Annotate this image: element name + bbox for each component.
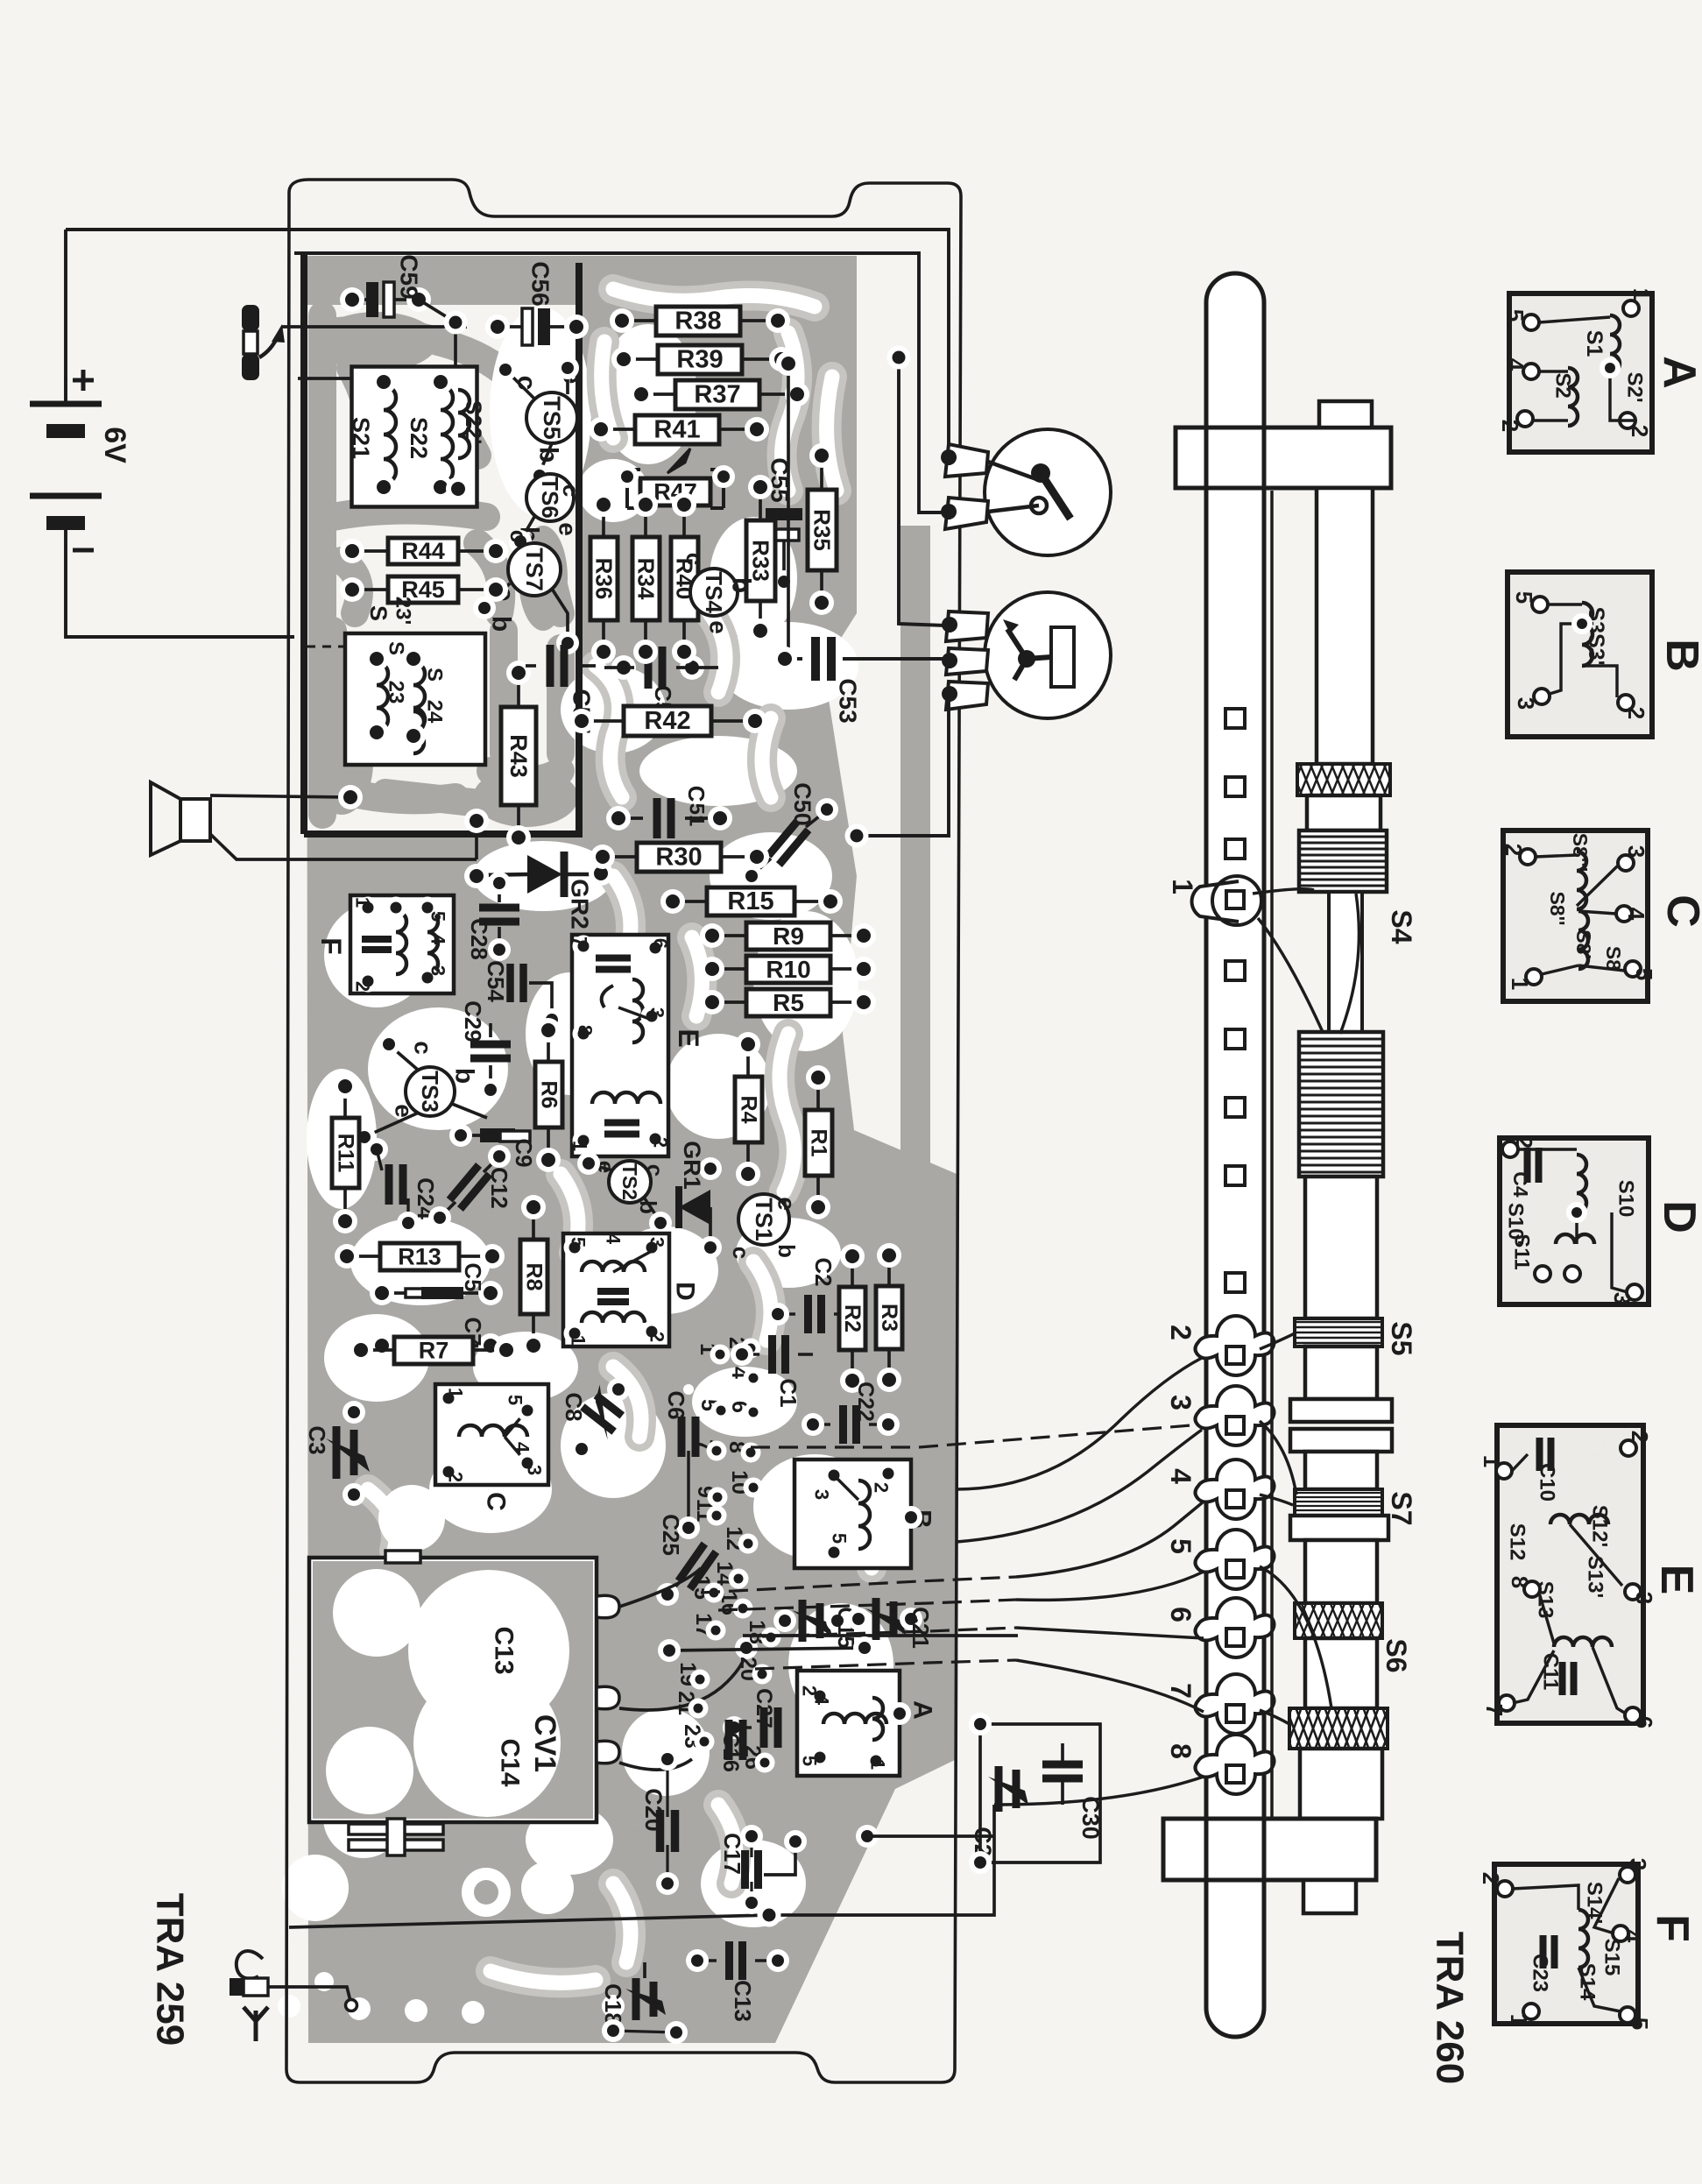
- diode GR1: [679, 1190, 710, 1225]
- svg-text:R34: R34: [633, 558, 660, 600]
- detail box E: [1497, 1425, 1643, 1723]
- svg-text:2: 2: [1623, 707, 1649, 719]
- svg-text:C54: C54: [483, 960, 509, 1002]
- net 23 dashed: [307, 646, 343, 648]
- svg-text:S11: S11: [1510, 1233, 1534, 1269]
- resistor R1: [805, 1110, 832, 1176]
- svg-text:R7: R7: [419, 1338, 449, 1364]
- svg-text:b: b: [450, 1068, 479, 1084]
- resistor R39: [658, 345, 742, 374]
- svg-text:C14: C14: [496, 1738, 525, 1786]
- svg-text:e: e: [554, 522, 582, 536]
- svg-text:c: c: [728, 1247, 754, 1259]
- svg-text:C5: C5: [460, 1262, 486, 1291]
- transistor TS5: [526, 392, 577, 443]
- detail box C: [1503, 830, 1648, 1001]
- resistor R30: [637, 843, 721, 872]
- transistor TS3: [406, 1067, 455, 1116]
- wire lug7 to S6b: [1260, 1710, 1289, 1724]
- resistor R34: [632, 537, 660, 620]
- capacitor C29: [470, 1044, 511, 1058]
- svg-text:TS7: TS7: [521, 548, 547, 591]
- battery plus sign: [73, 370, 94, 391]
- svg-text:7: 7: [1481, 1704, 1508, 1716]
- svg-text:2: 2: [650, 1137, 672, 1148]
- svg-text:C6: C6: [663, 1390, 689, 1419]
- dashed wire net lower 1: [701, 1577, 1016, 1593]
- svg-text:C28: C28: [466, 918, 492, 960]
- svg-text:4: 4: [603, 1233, 625, 1245]
- transistor TS6: [526, 474, 574, 521]
- svg-text:R37: R37: [694, 381, 740, 409]
- svg-text:2: 2: [1478, 1872, 1504, 1884]
- resistor R7: [394, 1337, 473, 1364]
- lamp wires: [988, 462, 1039, 480]
- solid wire net A: [743, 1634, 1018, 1637]
- svg-text:TS1: TS1: [751, 1198, 777, 1241]
- svg-text:D: D: [671, 1282, 700, 1301]
- trimmer C3: [333, 1426, 341, 1479]
- svg-text:R36: R36: [591, 558, 618, 600]
- svg-text:4: 4: [1623, 908, 1649, 921]
- svg-text:1: 1: [1479, 1455, 1505, 1467]
- belt lug 7: [1196, 1674, 1275, 1734]
- trimmer C8: [576, 1385, 631, 1440]
- belt lug 3: [1196, 1386, 1275, 1445]
- resistor R33: [746, 520, 775, 601]
- svg-text:2: 2: [646, 1332, 668, 1342]
- capacitor C27: [764, 1707, 778, 1748]
- svg-text:5: 5: [505, 1395, 526, 1405]
- resistor R45: [388, 576, 458, 603]
- svg-text:4: 4: [512, 1442, 533, 1453]
- rod mounting crossbar: [1176, 428, 1391, 488]
- svg-text:c: c: [505, 530, 532, 542]
- svg-text:C16: C16: [718, 1732, 743, 1772]
- svg-text:24: 24: [423, 700, 447, 724]
- svg-text:3: 3: [1631, 1592, 1657, 1604]
- wire loop C26 C30: [980, 1724, 1100, 1862]
- resistor R8: [520, 1240, 547, 1314]
- resistor R41: [635, 415, 719, 444]
- svg-text:4: 4: [1502, 358, 1529, 371]
- svg-text:R8: R8: [522, 1263, 547, 1291]
- svg-text:C8: C8: [561, 1392, 587, 1421]
- svg-text:C22: C22: [853, 1382, 878, 1422]
- svg-text:R42: R42: [644, 707, 690, 735]
- svg-text:3: 3: [1609, 1292, 1635, 1304]
- rod collar 1: [1307, 795, 1381, 830]
- svg-text:8: 8: [1507, 1576, 1533, 1588]
- rod collar pair: [1290, 1399, 1392, 1422]
- board wire to lug6: [1016, 1628, 1204, 1638]
- belt lug 5: [1196, 1530, 1275, 1589]
- rod tube mid: [1329, 892, 1362, 1032]
- capacitor C1: [773, 1335, 786, 1374]
- svg-text:S12: S12: [1506, 1523, 1529, 1561]
- svg-text:C4: C4: [1509, 1171, 1532, 1198]
- svg-text:R10: R10: [766, 956, 810, 983]
- svg-text:3: 3: [427, 965, 449, 976]
- capacitor C59: [366, 282, 378, 317]
- svg-text:4: 4: [1165, 1468, 1197, 1484]
- svg-text:TRA 259: TRA 259: [149, 1893, 192, 2046]
- svg-text:R4: R4: [737, 1096, 761, 1124]
- svg-text:3: 3: [1513, 697, 1539, 710]
- svg-text:c: c: [558, 484, 584, 497]
- svg-text:R2: R2: [840, 1304, 865, 1332]
- rod bottom bracket: [1163, 1819, 1376, 1880]
- svg-text:C9: C9: [511, 1138, 537, 1167]
- svg-text:5: 5: [1165, 1538, 1197, 1554]
- transistor TS2: [609, 1161, 651, 1203]
- svg-text:R5: R5: [773, 989, 804, 1016]
- svg-text:6: 6: [650, 938, 672, 949]
- coil S5 band: [1295, 1318, 1382, 1346]
- svg-text:C20: C20: [640, 1788, 667, 1832]
- resistor R36: [590, 537, 618, 620]
- svg-text:C: C: [482, 1492, 511, 1511]
- svg-text:S10: S10: [1614, 1180, 1638, 1218]
- svg-text:5: 5: [799, 1756, 821, 1766]
- tuning meter: [985, 592, 1111, 718]
- pour channel halo strokes: [368, 289, 876, 1983]
- trimmer C18: [632, 1978, 640, 2020]
- audio section border: [304, 253, 579, 834]
- rod tube 5: [1305, 1540, 1377, 1603]
- svg-text:6: 6: [1165, 1607, 1197, 1622]
- IF transformer E box: [572, 935, 668, 1156]
- capacitor C54: [511, 964, 524, 1002]
- board wire to lug5: [1016, 1572, 1204, 1600]
- svg-text:R41: R41: [653, 416, 700, 444]
- resistor R37: [675, 380, 759, 409]
- meter wire from pad: [899, 357, 945, 626]
- svg-text:23': 23': [392, 597, 415, 625]
- svg-text:R33: R33: [748, 540, 774, 582]
- CV1 wire to C25: [619, 1568, 701, 1607]
- svg-text:1: 1: [352, 897, 374, 908]
- contact strip pads: [741, 1339, 761, 1359]
- svg-text:F: F: [1647, 1914, 1698, 1942]
- svg-text:2: 2: [352, 981, 374, 992]
- capacitor C13b: [730, 1941, 743, 1980]
- svg-text:2: 2: [871, 1482, 893, 1493]
- capacitor C56: [522, 308, 533, 345]
- board wire to lug4: [1016, 1502, 1204, 1577]
- svg-text:R3: R3: [877, 1304, 901, 1332]
- svg-text:7: 7: [569, 937, 591, 947]
- svg-text:S: S: [365, 605, 392, 621]
- audio section base: [307, 305, 579, 834]
- svg-text:R38: R38: [674, 307, 721, 336]
- IF transformer B box on board: [795, 1460, 911, 1568]
- svg-text:5: 5: [829, 1533, 851, 1544]
- meter lug 1: [946, 611, 988, 641]
- svg-text:C27: C27: [752, 1688, 776, 1728]
- resistor R3: [876, 1286, 902, 1349]
- resistor R6: [535, 1062, 562, 1127]
- belt lug 4: [1196, 1460, 1275, 1519]
- battery minus sign: [73, 548, 94, 553]
- svg-text:TS4: TS4: [701, 571, 727, 613]
- svg-text:2: 2: [1501, 844, 1527, 856]
- svg-text:C1: C1: [775, 1378, 802, 1407]
- svg-text:TS2: TS2: [618, 1163, 641, 1200]
- copper pour ground plane: [307, 256, 957, 2043]
- svg-text:4: 4: [427, 934, 449, 945]
- earphone jack: [237, 1951, 263, 1979]
- resistor R40: [671, 537, 698, 620]
- svg-text:C13: C13: [490, 1626, 519, 1674]
- svg-text:TS3: TS3: [417, 1071, 443, 1113]
- svg-text:TS6: TS6: [537, 477, 563, 519]
- resistor R38: [656, 307, 740, 336]
- belt lug 2: [1196, 1316, 1275, 1375]
- svg-text:1: 1: [445, 1388, 467, 1398]
- capacitor C16: [729, 1720, 743, 1760]
- svg-text:C3: C3: [304, 1425, 330, 1454]
- resistor R13: [380, 1243, 459, 1270]
- svg-text:51: 51: [685, 803, 709, 827]
- belt lug 6: [1196, 1598, 1275, 1657]
- svg-text:R1: R1: [807, 1129, 831, 1157]
- svg-text:B: B: [1656, 639, 1702, 672]
- dial lamp lug 2: [945, 498, 988, 529]
- capacitor C58: [648, 647, 662, 689]
- dashed wire net 8: [751, 1425, 1191, 1447]
- audio section traces: [322, 315, 561, 815]
- svg-text:S2: S2: [1551, 372, 1575, 398]
- ground bus wire bottom: [289, 1805, 994, 1927]
- svg-text:3: 3: [646, 1237, 668, 1247]
- svg-text:A: A: [1654, 356, 1702, 389]
- svg-text:5: 5: [1502, 309, 1529, 322]
- wire top rail to lug2 area: [957, 1358, 1202, 1448]
- svg-text:C12: C12: [486, 1167, 512, 1209]
- capacitor C53: [816, 637, 831, 681]
- wire supply top rail: [66, 230, 949, 462]
- svg-text:E: E: [1651, 1565, 1702, 1595]
- capacitor C6: [682, 1417, 696, 1457]
- rod top stub: [1319, 401, 1372, 428]
- resistor R15: [707, 887, 795, 915]
- capacitor C57: [550, 645, 564, 687]
- svg-text:F: F: [315, 937, 347, 955]
- rod tube 3: [1305, 1346, 1377, 1399]
- IF transformer F box: [350, 895, 454, 993]
- svg-text:3: 3: [1625, 1858, 1651, 1870]
- capacitor C22: [844, 1405, 857, 1444]
- transformer S23 S24 box: [345, 633, 485, 765]
- rod collar bottom: [1300, 1749, 1382, 1819]
- svg-text:3: 3: [524, 1465, 546, 1475]
- resistor R2: [839, 1287, 865, 1350]
- svg-text:5: 5: [1631, 968, 1657, 980]
- speaker: [151, 782, 210, 855]
- svg-text:5: 5: [568, 1237, 590, 1247]
- transistor TS7: [508, 543, 561, 596]
- CV1 lugs: [597, 1595, 619, 1618]
- rod bottom stub: [1303, 1880, 1356, 1913]
- tuning capacitor CV1 box: [309, 1558, 597, 1822]
- svg-text:C13: C13: [730, 1980, 756, 2022]
- svg-text:S7: S7: [1386, 1491, 1417, 1525]
- IF transformer D box: [563, 1233, 669, 1346]
- board wire to lug7: [1016, 1660, 1204, 1712]
- dashed wire net 20: [755, 1660, 1016, 1669]
- dashed wire net 18: [762, 1628, 1016, 1636]
- wire lug4 to S7b: [1260, 1495, 1293, 1505]
- audio section blobs: [310, 312, 578, 827]
- rod tube 4: [1305, 1452, 1377, 1489]
- capacitor C5: [406, 1289, 444, 1297]
- svg-text:R44: R44: [401, 538, 445, 564]
- rod tube 6: [1305, 1638, 1377, 1708]
- trimmer C15: [799, 1600, 807, 1642]
- wire lug1 to coil S4: [1253, 889, 1314, 894]
- svg-text:2: 2: [1165, 1325, 1197, 1340]
- belt lug 1: [1192, 876, 1261, 925]
- svg-text:R43: R43: [505, 734, 532, 778]
- rod tube below S4: [1305, 1177, 1377, 1318]
- svg-text:S: S: [385, 641, 408, 655]
- capacitor C9: [480, 1128, 515, 1142]
- pour clearance ring: [462, 1868, 511, 1917]
- antenna coil S4 upper: [1299, 830, 1387, 892]
- svg-text:23: 23: [385, 681, 408, 704]
- svg-text:S22': S22': [461, 400, 485, 444]
- svg-text:8: 8: [1165, 1743, 1197, 1759]
- switch wires: [282, 325, 467, 329]
- svg-text:TRA 260: TRA 260: [1429, 1932, 1472, 2084]
- svg-text:1: 1: [1167, 879, 1198, 894]
- resistor R43: [501, 707, 536, 805]
- capacitor C30: [1042, 1764, 1083, 1778]
- svg-text:C10: C10: [1536, 1463, 1559, 1502]
- svg-text:GR2: GR2: [567, 879, 594, 929]
- PCB board outline TRA259: [286, 180, 961, 2082]
- svg-text:1: 1: [569, 1141, 591, 1151]
- switch arrow: [259, 335, 279, 357]
- pour clearance circle above CV1: [378, 1485, 445, 1551]
- detail box B: [1508, 572, 1652, 737]
- svg-text:c: c: [410, 1041, 437, 1055]
- antenna symbol: [244, 2007, 268, 2041]
- svg-text:2: 2: [445, 1472, 467, 1482]
- CV1 wire 3: [619, 1759, 692, 1770]
- svg-text:R30: R30: [655, 844, 702, 872]
- coil S7 band: [1295, 1489, 1382, 1516]
- resistor R35: [808, 490, 837, 570]
- meter lug 3: [946, 682, 988, 710]
- svg-text:C29: C29: [460, 1000, 486, 1043]
- dial scale belt: [1206, 273, 1264, 2037]
- board wire to lug2: [957, 1358, 1202, 1489]
- capacitor C20: [660, 1810, 675, 1852]
- svg-text:S8'': S8'': [1546, 891, 1569, 925]
- svg-text:S5: S5: [1386, 1321, 1417, 1355]
- svg-text:R6: R6: [537, 1081, 561, 1109]
- resistor R42: [624, 706, 711, 736]
- resistor R9: [746, 922, 830, 950]
- svg-text:6: 6: [1631, 1716, 1657, 1728]
- wire C59 net: [298, 300, 456, 378]
- pot arrow R47: [667, 449, 690, 473]
- transformer S21 S22 box: [352, 367, 477, 507]
- svg-text:3: 3: [811, 1489, 833, 1500]
- svg-text:A: A: [908, 1700, 937, 1720]
- wire battery negative: [64, 230, 67, 403]
- svg-text:R13: R13: [398, 1244, 441, 1270]
- capacitor C17: [745, 1850, 759, 1889]
- detail box A: [1509, 293, 1652, 452]
- transistor TS1: [738, 1194, 789, 1245]
- board wire to lug8: [994, 1777, 1204, 1805]
- svg-text:C59: C59: [396, 254, 423, 299]
- meter ground wire: [857, 696, 949, 836]
- svg-text:S15: S15: [1600, 1939, 1624, 1976]
- svg-text:R15: R15: [727, 887, 773, 915]
- meter lug 2: [946, 648, 988, 675]
- svg-text:5: 5: [427, 911, 449, 922]
- svg-text:S2': S2': [1623, 371, 1647, 402]
- svg-text:5: 5: [1511, 591, 1537, 604]
- CV1 wire 2: [619, 1650, 746, 1710]
- svg-text:2: 2: [1497, 420, 1523, 432]
- svg-text:CV1: CV1: [528, 1714, 561, 1772]
- ferrite rod tube upper: [1317, 488, 1373, 764]
- svg-text:C25: C25: [658, 1514, 684, 1556]
- svg-text:S4: S4: [1386, 909, 1417, 944]
- board wire to lug3: [957, 1430, 1202, 1542]
- svg-text:b: b: [773, 1244, 800, 1258]
- svg-text:b: b: [487, 616, 516, 632]
- trimmer C55: [766, 508, 802, 520]
- svg-text:1: 1: [1506, 2014, 1532, 2026]
- svg-text:S1: S1: [1582, 330, 1607, 357]
- resistor R44: [388, 538, 458, 564]
- svg-text:TS5: TS5: [539, 396, 565, 440]
- ferrite rod core line: [1270, 491, 1274, 1819]
- svg-text:S8': S8': [1572, 929, 1595, 959]
- pour channel strokes: [368, 289, 876, 1983]
- svg-text:R11: R11: [334, 1134, 358, 1173]
- svg-text:5: 5: [1627, 2018, 1653, 2030]
- dial lamp: [985, 429, 1111, 555]
- solid wire net B: [669, 1648, 865, 1650]
- diode GR2: [527, 855, 562, 894]
- svg-text:c: c: [682, 553, 708, 565]
- svg-text:S21: S21: [348, 417, 374, 459]
- svg-text:S6: S6: [1381, 1638, 1412, 1672]
- oscillator coil C box: [435, 1384, 548, 1485]
- svg-text:C53: C53: [835, 678, 862, 723]
- antenna coil S4 lower: [1299, 1032, 1383, 1177]
- svg-text:1: 1: [1507, 978, 1533, 990]
- svg-text:C50: C50: [789, 782, 816, 826]
- detail box D: [1500, 1138, 1649, 1304]
- wire C17 to right: [795, 1841, 918, 1842]
- wire lug2 to S5: [1260, 1333, 1295, 1349]
- capacitor C12 diagonal: [449, 1165, 490, 1209]
- svg-text:3: 3: [1623, 845, 1649, 858]
- svg-text:e: e: [705, 620, 732, 634]
- svg-text:C17: C17: [719, 1833, 745, 1875]
- svg-text:2: 2: [1627, 425, 1653, 437]
- resistor R5: [746, 989, 830, 1016]
- svg-text:C21: C21: [907, 1607, 934, 1649]
